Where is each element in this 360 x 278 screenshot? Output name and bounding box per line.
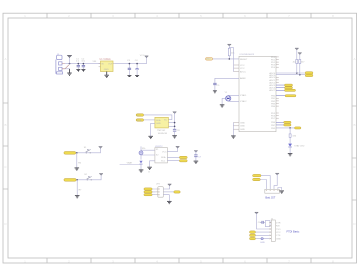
ground at crystal bbox=[220, 105, 225, 107]
wire gnd rail bbox=[232, 123, 234, 136]
wire batt2 bbox=[260, 180, 266, 190]
wire rtc sda/scl bbox=[167, 157, 179, 160]
node net label S1 bbox=[64, 152, 76, 155]
svg-text:3: 3 bbox=[112, 14, 114, 18]
resistor R2 led bbox=[289, 128, 297, 144]
crystal Y2 bbox=[139, 151, 143, 155]
svg-text:GND: GND bbox=[240, 122, 245, 124]
pin ftdi labels bbox=[276, 222, 281, 240]
connector J1 barrel jack bbox=[56, 54, 69, 74]
pin right labels bbox=[269, 57, 276, 130]
wire reset to IC bbox=[213, 58, 240, 60]
svg-text:A: A bbox=[4, 57, 6, 61]
pin VCC stubs bbox=[234, 65, 239, 72]
battery BT1 bbox=[139, 161, 142, 170]
wire S2 pulldown bbox=[76, 180, 78, 195]
ground at battery bbox=[139, 170, 144, 172]
resistor R1 bbox=[228, 48, 235, 59]
wire crystal rail bbox=[140, 146, 142, 159]
wire jack to VCC node bbox=[65, 63, 101, 65]
svg-text:TXO: TXO bbox=[276, 229, 281, 231]
ground at regulator bbox=[104, 72, 109, 78]
ground at jack bbox=[67, 69, 72, 76]
svg-text:ADC3: ADC3 bbox=[269, 84, 276, 87]
supply VCC at jst bbox=[275, 173, 279, 175]
svg-text:ADC6: ADC6 bbox=[269, 87, 276, 90]
ground at jst bbox=[279, 191, 284, 193]
svg-text:C8: C8 bbox=[177, 130, 181, 132]
ground at C7 bbox=[194, 161, 199, 163]
wire VBAT bbox=[120, 163, 141, 165]
IC U4 sensor bbox=[155, 117, 169, 135]
wire jp2 gnd bbox=[163, 195, 169, 202]
svg-text:VCC: VCC bbox=[240, 68, 245, 70]
svg-text:ADC0: ADC0 bbox=[269, 76, 276, 79]
svg-text:C: C bbox=[353, 165, 356, 169]
svg-text:ADC2: ADC2 bbox=[269, 81, 276, 84]
svg-text:XTAL1: XTAL1 bbox=[240, 94, 247, 97]
supply VCC at rtc bbox=[176, 146, 180, 148]
node net labels lower right bbox=[276, 122, 284, 125]
connector FTDI bbox=[269, 218, 275, 241]
wire regulator output bbox=[115, 57, 147, 63]
svg-text:GND: GND bbox=[104, 69, 109, 71]
svg-text:VCC: VCC bbox=[276, 232, 281, 234]
wire sda to sensor bbox=[144, 119, 155, 121]
wire VCC pins rail bbox=[233, 48, 235, 72]
node net labels ftdi bbox=[250, 231, 256, 233]
svg-text:GND: GND bbox=[260, 242, 265, 244]
node junction at jack vcc bbox=[69, 63, 71, 65]
svg-text:Batt JST: Batt JST bbox=[265, 196, 275, 200]
capacitor C4 polarized bbox=[135, 60, 139, 76]
svg-text:VCC: VCC bbox=[240, 65, 245, 67]
svg-text:R7: R7 bbox=[79, 190, 83, 192]
ground at sensor bbox=[148, 136, 153, 138]
capacitor C1 bbox=[76, 58, 80, 71]
wire jp2 nets bbox=[152, 189, 155, 195]
wire rtc gnd bbox=[150, 161, 155, 167]
wire switch 1 bbox=[76, 148, 101, 153]
svg-text:5: 5 bbox=[200, 14, 202, 18]
node net label S2 bbox=[64, 179, 76, 182]
svg-text:10u: 10u bbox=[81, 61, 85, 63]
svg-text:GND: GND bbox=[276, 238, 281, 240]
ground at jp2 bbox=[167, 201, 172, 203]
wire jst gnd bbox=[278, 188, 282, 190]
svg-text:SENSOR: SENSOR bbox=[158, 133, 168, 135]
svg-text:GND: GND bbox=[240, 126, 245, 128]
svg-text:RESET: RESET bbox=[240, 59, 248, 61]
switch S1 bbox=[84, 147, 91, 154]
node gnd via bbox=[261, 238, 263, 240]
wire batt1 bbox=[261, 176, 270, 190]
ground at S1 bbox=[75, 168, 80, 170]
supply VCC at S1 bbox=[99, 147, 103, 149]
ground at IC bbox=[231, 136, 236, 138]
node SCL net label bbox=[305, 74, 313, 76]
svg-text:AVCC: AVCC bbox=[240, 71, 246, 74]
wire PB5 to LED node bbox=[276, 127, 295, 129]
ground at LED bbox=[288, 154, 293, 156]
node sda label rtc bbox=[179, 156, 187, 158]
pin left labels bbox=[240, 59, 248, 131]
node SDA net label bbox=[136, 119, 144, 122]
pin right stubs bbox=[276, 57, 279, 118]
node SCL junction bbox=[299, 74, 301, 76]
svg-text:D: D bbox=[4, 222, 7, 226]
svg-text:330: 330 bbox=[292, 136, 296, 138]
svg-text:C5: C5 bbox=[217, 85, 221, 87]
capacitor C3 bbox=[127, 60, 131, 76]
capacitor C6 dtr bbox=[258, 221, 266, 224]
svg-text:TMP102: TMP102 bbox=[157, 130, 166, 132]
svg-text:VIN: VIN bbox=[93, 61, 97, 63]
switch S2 bbox=[84, 174, 92, 180]
svg-text:VCC: VCC bbox=[162, 151, 167, 153]
svg-text:U2 ATMEGA328: U2 ATMEGA328 bbox=[239, 53, 255, 56]
wire switch 2 bbox=[76, 175, 101, 180]
wire ftdi nets bbox=[256, 232, 270, 239]
svg-text:0.1: 0.1 bbox=[76, 61, 80, 63]
svg-text:AREF: AREF bbox=[240, 77, 246, 80]
node net labels batt bbox=[253, 174, 261, 176]
wire vcc rail sensor bbox=[174, 113, 176, 129]
capacitor C8 bbox=[173, 129, 180, 135]
svg-text:STAT LED: STAT LED bbox=[294, 144, 305, 147]
crystal Y1 resonator bbox=[222, 92, 239, 104]
pin AREF wire bbox=[215, 78, 239, 81]
wire jp2 vcc bbox=[163, 185, 169, 189]
svg-text:ADC1: ADC1 bbox=[269, 79, 276, 82]
svg-text:SDA: SDA bbox=[161, 156, 166, 159]
ground at S2 bbox=[75, 196, 80, 198]
wire crystal to rtc bbox=[141, 150, 155, 155]
svg-text:10k: 10k bbox=[231, 53, 235, 55]
svg-text:2: 2 bbox=[68, 14, 70, 18]
supply VCC at sensor bbox=[173, 112, 177, 114]
svg-text:32k: 32k bbox=[142, 148, 146, 150]
capacitor C5 bbox=[213, 82, 220, 94]
svg-text:VBAT: VBAT bbox=[127, 161, 133, 164]
wire SCL to pullup bbox=[276, 74, 305, 76]
svg-text:R6: R6 bbox=[78, 163, 82, 165]
wire jp2 signal bbox=[163, 191, 174, 193]
supply VCC at S2 bbox=[99, 174, 103, 176]
svg-text:C4: C4 bbox=[135, 60, 139, 62]
svg-text:SC: SC bbox=[164, 119, 167, 121]
wire jst vcc bbox=[274, 174, 277, 189]
svg-text:S1: S1 bbox=[84, 147, 87, 149]
wire jack sleeve bbox=[65, 68, 70, 70]
svg-text:FTDI Basic: FTDI Basic bbox=[287, 230, 301, 234]
node scl label rtc bbox=[179, 160, 187, 162]
svg-text:U1 V-REG: U1 V-REG bbox=[100, 58, 111, 61]
svg-text:A: A bbox=[353, 57, 355, 61]
svg-text:JP2: JP2 bbox=[156, 183, 161, 185]
svg-text:8: 8 bbox=[332, 14, 334, 18]
svg-text:OUT: OUT bbox=[108, 64, 113, 66]
node net labels jp2 bbox=[144, 188, 152, 196]
svg-text:C: C bbox=[4, 165, 7, 169]
LED D1 bbox=[288, 144, 305, 154]
svg-text:C7: C7 bbox=[198, 156, 202, 158]
capacitor C2 bbox=[81, 58, 85, 71]
IC U2 ATMEGA328 bbox=[239, 53, 276, 132]
supply VCC at ftdi bbox=[255, 212, 259, 214]
svg-text:XTAL2: XTAL2 bbox=[240, 100, 247, 103]
wire sensor gnd bbox=[151, 123, 155, 136]
svg-text:C3: C3 bbox=[127, 60, 131, 62]
node net labels mid right bbox=[276, 85, 285, 96]
connector JP2 bbox=[156, 183, 164, 197]
supply VCC at R5 bbox=[298, 53, 302, 55]
svg-text:SDA: SDA bbox=[137, 119, 142, 122]
svg-text:GND: GND bbox=[156, 123, 161, 125]
node SCL net label bbox=[136, 114, 144, 117]
svg-text:S2: S2 bbox=[84, 174, 87, 176]
supply VCC above R1 bbox=[228, 44, 232, 46]
svg-text:VCC: VCC bbox=[140, 55, 145, 57]
svg-text:RXI: RXI bbox=[276, 226, 280, 228]
resistor R5 pullup bbox=[299, 54, 305, 75]
ground at C8 bbox=[172, 136, 177, 138]
wire vcc stem and branch bbox=[229, 45, 233, 47]
capacitor C7 bbox=[194, 151, 202, 161]
supply VCC symbol at jack bbox=[69, 58, 71, 64]
wire S1 pulldown bbox=[76, 153, 78, 168]
svg-text:1: 1 bbox=[24, 14, 26, 18]
IC U3 RTC bbox=[155, 146, 168, 163]
node signal label bbox=[174, 191, 180, 193]
svg-text:6: 6 bbox=[244, 14, 246, 18]
resistor R4 pullup bbox=[293, 49, 298, 73]
svg-text:4k7: 4k7 bbox=[301, 62, 305, 64]
svg-text:G: G bbox=[148, 172, 150, 174]
svg-text:SDA: SDA bbox=[156, 119, 161, 122]
svg-text:RST: RST bbox=[206, 59, 211, 61]
node SDA net label bbox=[305, 72, 313, 74]
svg-text:D: D bbox=[353, 222, 356, 226]
svg-text:B: B bbox=[4, 123, 6, 127]
pin GND stubs bottom bbox=[233, 123, 239, 130]
node SDA junction bbox=[296, 72, 298, 74]
svg-text:4: 4 bbox=[156, 14, 158, 18]
node junction reset/R1 bbox=[229, 58, 231, 60]
ground at rtc bbox=[147, 167, 152, 169]
wire rtc vcc bbox=[167, 148, 177, 152]
regulator U1 bbox=[99, 58, 115, 71]
svg-text:GND: GND bbox=[240, 129, 245, 131]
svg-text:DTR: DTR bbox=[276, 222, 281, 224]
supply VCC at jp2 bbox=[168, 184, 172, 186]
supply VCC at R4 bbox=[295, 48, 299, 50]
svg-text:ADC7: ADC7 bbox=[269, 89, 276, 92]
svg-text:Y1: Y1 bbox=[225, 92, 228, 94]
wire ftdi vcc bbox=[257, 213, 270, 229]
connector JST bbox=[265, 189, 280, 193]
supply VCC at regulator output bbox=[145, 56, 149, 58]
svg-text:B: B bbox=[353, 123, 355, 127]
node RESET net label bbox=[206, 58, 213, 61]
svg-text:CTS: CTS bbox=[276, 235, 281, 237]
svg-text:U3 RTC: U3 RTC bbox=[155, 146, 163, 148]
wire scl to sensor bbox=[144, 115, 172, 120]
wire SDA to pullup bbox=[276, 72, 305, 74]
wire dtr loop bbox=[265, 221, 270, 227]
svg-text:7: 7 bbox=[288, 14, 290, 18]
